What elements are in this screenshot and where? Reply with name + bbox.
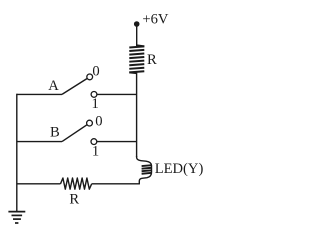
switch A common wire (17, 93, 62, 95)
switch B common wire (17, 141, 62, 143)
svg-text:+6V: +6V (142, 12, 169, 28)
+6V supply node (134, 21, 140, 27)
svg-text:R: R (69, 191, 79, 207)
switch B arm (to position 0) (62, 125, 87, 142)
svg-text:0: 0 (92, 64, 99, 80)
LED lead wire (elbows around coil) (137, 156, 152, 184)
wire: switch A contact 1 to right bus (97, 93, 137, 95)
left bus wire (16, 94, 18, 212)
LED coil body (142, 165, 152, 174)
wire: supply dot to resistor R1 top (136, 24, 138, 47)
svg-text:LED(Y): LED(Y) (155, 161, 204, 177)
bottom wire: right bus to resistor R2 (92, 183, 140, 185)
switch B contact 1 (91, 139, 97, 145)
wire: switch B contact 1 to right bus (97, 141, 137, 143)
switch A contact 0 (87, 74, 93, 80)
svg-text:R: R (147, 52, 157, 68)
svg-text:0: 0 (95, 114, 102, 130)
svg-text:1: 1 (92, 96, 99, 112)
switch B contact 0 (87, 120, 93, 126)
svg-text:1: 1 (92, 144, 99, 160)
bottom wire: resistor R2 to left bus (17, 183, 61, 185)
switch A contact 1 (91, 92, 97, 98)
switch A arm (to position 0) (62, 78, 87, 94)
resistor R2 (bottom, zigzag) (61, 178, 92, 189)
ground (8, 212, 25, 223)
svg-text:A: A (48, 78, 59, 94)
wire: right bus, R1 bottom down to LED top (136, 73, 138, 157)
resistor R1 (top, coil style) (129, 45, 144, 73)
svg-text:B: B (50, 125, 60, 141)
